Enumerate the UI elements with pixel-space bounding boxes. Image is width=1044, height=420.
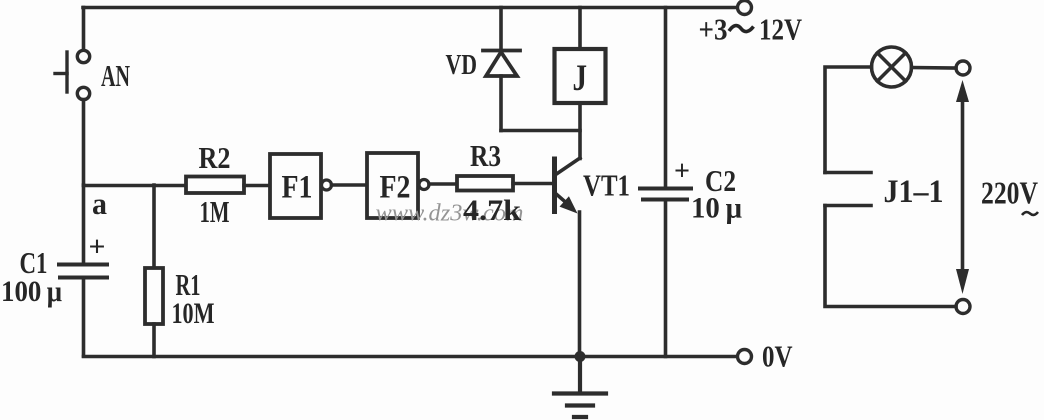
svg-text:a: a bbox=[92, 186, 107, 221]
capacitor C1 bbox=[59, 265, 107, 278]
wire R1 bottom lead bbox=[152, 324, 156, 357]
svg-text:J1–1: J1–1 bbox=[884, 174, 944, 210]
resistor R2 bbox=[186, 177, 244, 194]
wire button to node a bbox=[82, 100, 86, 186]
wire R3 to base bbox=[513, 182, 554, 186]
wire R1 top lead bbox=[152, 185, 156, 268]
wire VD bottom lead bbox=[499, 76, 503, 131]
220V tilde bbox=[1022, 212, 1038, 215]
svg-text:J: J bbox=[573, 58, 588, 99]
wire C2 bottom lead bbox=[664, 200, 668, 357]
junction dot emitter/ground bbox=[575, 351, 586, 362]
inverter F2 bbox=[367, 153, 429, 218]
svg-text:R2: R2 bbox=[199, 140, 231, 175]
resistor R1 bbox=[145, 268, 163, 324]
wire emitter down bbox=[578, 212, 582, 357]
arrow 220V bbox=[956, 80, 969, 294]
transistor VT1 bbox=[555, 158, 581, 214]
terminal lamp bottom bbox=[956, 300, 970, 314]
pushbutton AN bbox=[55, 50, 90, 99]
relay J bbox=[555, 49, 606, 103]
ground bbox=[554, 357, 606, 418]
svg-text:1M: 1M bbox=[200, 194, 230, 229]
wire bottom rail bbox=[84, 355, 737, 359]
lamp bbox=[872, 47, 912, 87]
svg-text:12V: 12V bbox=[759, 12, 802, 47]
svg-text:220V: 220V bbox=[981, 175, 1038, 211]
svg-text:AN: AN bbox=[101, 58, 130, 93]
wire lamp right bbox=[912, 66, 957, 70]
supply tilde bbox=[729, 26, 754, 32]
svg-text:+: + bbox=[89, 231, 106, 263]
wire R2 to F1 bbox=[244, 184, 270, 188]
wire lamp left bbox=[825, 67, 872, 173]
svg-text:VT1: VT1 bbox=[583, 168, 630, 203]
svg-text:+: + bbox=[674, 155, 690, 187]
contact J1-1 upper bbox=[825, 171, 871, 175]
wire C1 bottom lead bbox=[82, 278, 86, 357]
wire C1 top lead bbox=[82, 185, 86, 263]
svg-text:100 μ: 100 μ bbox=[1, 275, 62, 308]
svg-text:4.7k: 4.7k bbox=[463, 194, 521, 227]
wire top rail bbox=[83, 6, 736, 10]
wire VD to collector bbox=[501, 129, 580, 133]
wire contact to bottom terminal bbox=[825, 206, 956, 307]
contact J1-1 lower bbox=[825, 204, 871, 208]
svg-text:F2: F2 bbox=[380, 170, 411, 206]
resistor R3 bbox=[457, 176, 513, 191]
svg-text:10 μ: 10 μ bbox=[691, 192, 742, 225]
inverter F1 bbox=[270, 154, 332, 218]
wire collector up bbox=[578, 102, 582, 159]
svg-text:R3: R3 bbox=[470, 138, 501, 173]
wire left drop to button bbox=[82, 8, 86, 51]
wire F1 to F2 bbox=[332, 183, 368, 187]
capacitor C2 bbox=[640, 189, 691, 200]
svg-text:VD: VD bbox=[446, 50, 478, 81]
svg-text:10M: 10M bbox=[172, 297, 215, 330]
svg-text:+3: +3 bbox=[699, 12, 728, 47]
wire J top lead bbox=[578, 8, 582, 50]
wire F2 to R3 bbox=[429, 182, 457, 186]
diode VD bbox=[483, 51, 520, 77]
terminal lamp top bbox=[956, 61, 970, 75]
svg-text:0V: 0V bbox=[762, 339, 793, 374]
wire VD top lead bbox=[499, 8, 503, 51]
wire C2 top lead bbox=[664, 8, 668, 189]
terminal +3~12V bbox=[738, 1, 752, 15]
svg-text:F1: F1 bbox=[282, 170, 313, 206]
terminal 0V bbox=[738, 350, 752, 364]
wire node line bbox=[84, 184, 187, 188]
